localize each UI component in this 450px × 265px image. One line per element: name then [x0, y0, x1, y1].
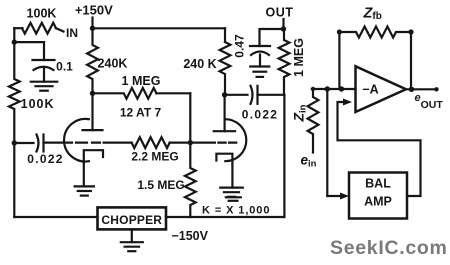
svg-text:Zfb: Zfb — [363, 6, 382, 23]
wire arrow into BAL AMP — [327, 195, 343, 197]
capacitor 0.47 plates — [250, 45, 270, 47]
svg-text:ein: ein — [301, 153, 317, 170]
node Zfb right corner — [408, 29, 413, 34]
wire summing node down to BAL AMP — [326, 89, 328, 196]
resistor 100K #2 vertical — [9, 42, 20, 143]
node plate-2 junction — [222, 92, 227, 97]
svg-text:100K: 100K — [21, 97, 55, 111]
op-amp A triangle — [356, 66, 407, 112]
tube V1 envelope — [64, 119, 89, 162]
capacitor 0.022 input plates — [37, 135, 39, 152]
wire +150V lead down — [91, 18, 93, 29]
wire +150V rail to right — [93, 27, 226, 29]
resistor 1.5 MEG vertical — [185, 143, 196, 217]
wire chopper ground stem — [131, 229, 133, 242]
svg-text:+150V: +150V — [75, 3, 113, 18]
wire input-left corner to resistor — [14, 27, 22, 29]
tube V2 cathode — [216, 154, 232, 164]
node grid-1 branch junction — [12, 140, 17, 145]
wire Zfb left vertical — [338, 32, 340, 89]
node 0.1 branch junction — [12, 39, 17, 44]
wire -150V rail up to 1MEG node — [283, 95, 285, 217]
impedance Zin vertical — [308, 89, 319, 153]
mark overbar above K formula — [226, 196, 241, 198]
svg-text:eOUT: eOUT — [415, 92, 444, 111]
wire 0.47 to ground — [259, 55, 261, 67]
box BAL AMP — [349, 173, 407, 219]
svg-text:AMP: AMP — [364, 195, 392, 209]
svg-text:0.1: 0.1 — [56, 60, 73, 74]
wire bottom rail to chopper box — [14, 216, 97, 218]
svg-text:240K: 240K — [98, 57, 128, 71]
svg-text:1 MEG: 1 MEG — [292, 38, 306, 77]
wire plate-2 to 0.022 cap — [225, 94, 248, 96]
node Zfb left corner — [337, 29, 342, 34]
arrowhead into BAL AMP — [340, 193, 349, 200]
wire 2.2MEG right lead to grid-2 node — [170, 142, 191, 144]
svg-text:1 MEG: 1 MEG — [122, 74, 161, 88]
tube V1 plate bar — [83, 129, 103, 131]
wire BAL AMP output loop — [338, 102, 421, 196]
svg-text:0.47: 0.47 — [233, 34, 247, 58]
node output junction — [409, 87, 414, 92]
node grid-2 junction — [188, 140, 193, 145]
wire corner down to grid-2 node — [189, 93, 191, 142]
svg-text:1.5 MEG: 1.5 MEG — [137, 178, 184, 192]
resistor 1 MEG feedback horizontal — [93, 88, 157, 99]
tube V1 grid dashes — [76, 142, 100, 144]
wire 1 MEG to right corner — [156, 92, 190, 94]
wire 0.1 branch down — [43, 42, 45, 60]
resistor 2.2 MEG grid horizontal — [132, 137, 170, 148]
wire OUT terminal lead — [282, 19, 284, 29]
svg-text:0.022: 0.022 — [27, 152, 64, 166]
svg-text:IN: IN — [66, 26, 78, 40]
svg-text:−150V: −150V — [171, 229, 208, 243]
node OUT junction — [281, 26, 286, 31]
resistor 100K input, horizontal — [22, 23, 56, 34]
capacitor 0.022 coupling plates — [251, 86, 253, 104]
wire grid-1 solid segment to 2.2MEG — [104, 142, 132, 144]
arrowhead into op-amp input 2 — [343, 99, 352, 106]
impedance Zfb horizontal — [339, 27, 411, 38]
svg-text:SeekIC.com: SeekIC.com — [330, 237, 448, 259]
capacitor 0.1 plates — [33, 59, 55, 61]
ground below tube V2 — [220, 187, 243, 189]
resistor 240K #1 vertical — [87, 28, 98, 93]
node Zfb branch — [339, 86, 344, 91]
node plate-1 / 240K bottom junction — [90, 91, 95, 96]
wire Zfb right vertical — [410, 32, 412, 89]
wire tube V2 cathode to ground — [231, 164, 233, 188]
resistor 1 MEG output vertical — [279, 29, 290, 95]
svg-text:100K: 100K — [27, 7, 57, 21]
svg-text:12 AT 7: 12 AT 7 — [120, 106, 162, 120]
wire resistor to IN terminal — [56, 28, 64, 31]
wire tube V1 cathode to ground — [83, 163, 85, 186]
ground below 0.1 — [31, 81, 58, 83]
wire left rail bottom segment — [13, 143, 15, 217]
svg-text:−A: −A — [362, 83, 378, 97]
box CHOPPER — [98, 207, 167, 229]
node input corner — [311, 87, 315, 91]
node output terminal — [434, 87, 438, 91]
wire OUT rail — [260, 29, 284, 46]
wire output lead — [406, 88, 437, 90]
wire rail corner down to 240K #2 — [224, 28, 226, 42]
wire 0.022 to tube-1 grid — [44, 142, 73, 144]
wire chopper to -150V rail — [166, 216, 284, 218]
tube V2 plate bar — [214, 130, 235, 132]
resistor 240K #2 vertical — [220, 42, 231, 95]
tube V2 envelope — [225, 119, 246, 161]
svg-text:BAL: BAL — [365, 177, 391, 191]
wire left rail top segment — [13, 28, 15, 42]
svg-text:K = X 1,000: K = X 1,000 — [202, 205, 270, 217]
tube V1 cathode — [84, 150, 103, 163]
wire tube V1 plate lead — [91, 93, 93, 130]
ground below tube V1 — [75, 185, 94, 187]
node BAL AMP branch — [325, 86, 330, 91]
ground below chopper — [121, 241, 143, 243]
svg-text:0.022: 0.022 — [242, 108, 279, 122]
wire 0.1 to ground — [43, 68, 45, 82]
svg-text:240 K: 240 K — [183, 57, 216, 71]
wire 0.1 branch horizontal — [14, 41, 44, 43]
wire grid-2 solid segment — [190, 142, 215, 144]
svg-text:2.2 MEG: 2.2 MEG — [131, 150, 178, 164]
wire grid-1 node to 0.022 — [14, 142, 33, 144]
svg-text:OUT: OUT — [266, 6, 294, 20]
svg-text:CHOPPER: CHOPPER — [101, 213, 162, 227]
node +150V rail junction — [90, 26, 95, 31]
wire 0.022 cap to 1MEG node — [258, 94, 285, 96]
wire tube V2 plate lead — [224, 95, 226, 131]
svg-text:Zin: Zin — [291, 104, 309, 122]
ground below 0.47 — [250, 65, 269, 67]
tube V2 grid dash-dot — [218, 142, 236, 144]
wire summing input line — [312, 88, 356, 90]
